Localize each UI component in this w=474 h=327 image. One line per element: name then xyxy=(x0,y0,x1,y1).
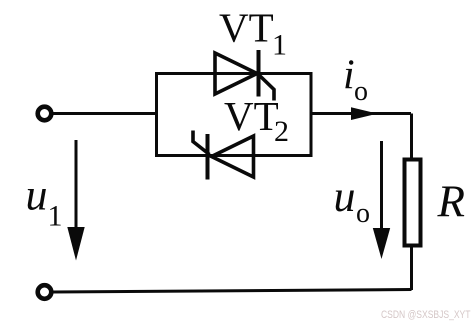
svg-text:u: u xyxy=(26,171,48,220)
svg-text:1: 1 xyxy=(272,29,287,62)
box thyristor-module outline xyxy=(157,74,312,156)
svg-text:i: i xyxy=(343,53,355,99)
svg-text:CSDN @SXSBJS_XYT: CSDN @SXSBJS_XYT xyxy=(381,309,471,321)
arrowhead u1 xyxy=(67,227,84,261)
svg-text:R: R xyxy=(437,177,466,227)
thyristor VT2 triangle xyxy=(212,136,254,177)
thyristor VT1 gate lead xyxy=(259,75,275,101)
svg-text:VT: VT xyxy=(224,93,279,139)
wire top-left horizontal xyxy=(53,112,159,115)
terminal top-left xyxy=(38,107,52,121)
svg-text:2: 2 xyxy=(274,115,289,148)
svg-text:VT: VT xyxy=(219,5,274,51)
thyristor VT1 triangle xyxy=(215,53,257,94)
thyristor VT2 cathode bar xyxy=(206,134,210,180)
arrowhead io current arrow xyxy=(351,107,378,120)
wire bottom horizontal xyxy=(53,290,412,293)
arrowhead uo xyxy=(373,228,390,259)
thyristor VT1 cathode bar xyxy=(257,50,261,97)
wire resistor bottom vertical xyxy=(410,246,413,291)
svg-text:o: o xyxy=(356,198,370,229)
svg-text:1: 1 xyxy=(48,200,63,233)
svg-text:o: o xyxy=(354,76,368,107)
wire u1 arrow stem xyxy=(75,140,78,232)
thyristor VT2 gate lead xyxy=(193,131,210,155)
svg-text:u: u xyxy=(334,172,356,221)
wire top-right horizontal to corner xyxy=(311,112,411,115)
terminal bottom-left xyxy=(38,285,52,299)
resistor R body xyxy=(405,160,421,246)
wire right vertical to resistor xyxy=(410,114,413,160)
wire uo arrow stem xyxy=(380,141,383,233)
